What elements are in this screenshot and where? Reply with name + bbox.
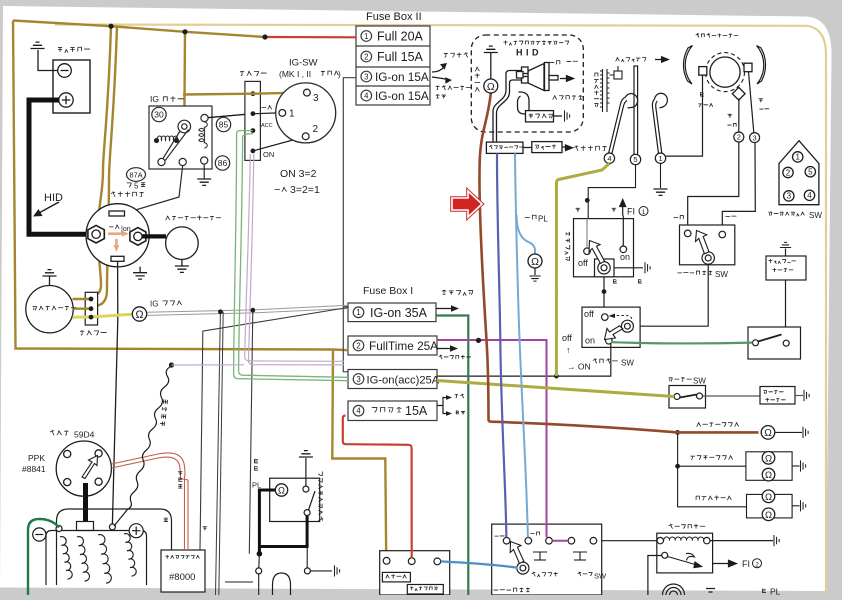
box	[582, 307, 640, 347]
svg-text:Ω: Ω	[764, 428, 772, 439]
arrow horn relay from row2	[437, 348, 451, 350]
FI2 arrow from box	[713, 563, 730, 565]
svg-text:off: off	[584, 309, 594, 319]
ballast to ground wire	[554, 115, 563, 117]
wire tan branch down to IG relay pin30	[183, 32, 186, 125]
svg-text:#8000: #8000	[169, 572, 195, 583]
cell/on orange arrows	[108, 231, 129, 252]
on contact	[620, 246, 627, 253]
svg-text:IG-SW: IG-SW	[289, 58, 318, 69]
coupler junction dots	[251, 91, 256, 153]
svg-text:Ω: Ω	[765, 510, 772, 521]
svg-text:Ω: Ω	[487, 81, 495, 93]
off contact	[602, 314, 609, 321]
straight pin for 5	[634, 66, 638, 155]
svg-text:Ω: Ω	[765, 453, 772, 464]
svg-text:FI: FI	[627, 207, 635, 217]
brown wire small lamp to controller to meter lamp	[479, 93, 758, 432]
right hex nut	[130, 228, 146, 246]
number lamp box	[746, 452, 792, 481]
rotor arrow	[82, 456, 98, 479]
outer rounded enclosure	[57, 509, 172, 585]
red FI1 up arrow	[622, 204, 624, 216]
svg-text:5: 5	[808, 168, 813, 177]
blue wire small box to passing pivot	[441, 561, 518, 567]
circled 30	[152, 107, 166, 121]
block arrow	[696, 231, 710, 254]
svg-text:IG-on 15A: IG-on 15A	[375, 89, 429, 103]
starter circle	[166, 227, 199, 260]
wire pin1 to ground	[660, 163, 662, 188]
coupler box	[245, 81, 261, 160]
wire alternator stub tan2	[73, 308, 91, 310]
left square terminal	[699, 67, 707, 76]
haiPL lamp stem to ground	[534, 268, 536, 275]
small tick symbol near left PL	[706, 589, 715, 593]
pivot rings	[702, 252, 714, 264]
rear small feed	[678, 466, 747, 507]
IG-SW circle	[276, 83, 336, 143]
washer motor box	[766, 256, 806, 280]
wire alternator stub tan1	[73, 298, 92, 300]
wire alternator stub yellow + IG lamp wire	[73, 314, 133, 317]
fuse box I row4 light 15A	[348, 401, 437, 421]
solenoid ground stem	[139, 267, 141, 273]
fuse box I row3 IG-on(acc)25A	[348, 370, 437, 389]
svg-text:FI: FI	[742, 559, 750, 569]
left bulb terminal	[256, 568, 262, 574]
svg-text:Ω: Ω	[135, 309, 143, 321]
svg-text:IG: IG	[150, 300, 158, 309]
svg-text:SW: SW	[621, 359, 634, 368]
svg-text:ACC: ACC	[261, 123, 273, 129]
fuse box I row2 FullTime 25A	[348, 336, 437, 355]
wire tan big page loop: left side down, bottom across	[13, 21, 348, 351]
contact 3	[546, 537, 553, 544]
wire cell line from relay area to coupler (left of box)	[208, 114, 245, 117]
inner rect top	[46, 531, 147, 586]
link to heater motor	[703, 395, 761, 397]
circled 3	[361, 71, 372, 82]
svg-text:30: 30	[154, 110, 164, 120]
wire tan main top horizontal	[13, 21, 265, 38]
contact 5 horn	[590, 537, 597, 544]
right square terminal	[744, 63, 752, 71]
off contact	[584, 248, 591, 255]
pin 3	[304, 89, 311, 96]
wire pin5 down to intermittent kit	[588, 165, 635, 248]
wire red/low: right square down to 3 then to rohai switch	[749, 72, 754, 133]
svg-text:off: off	[562, 333, 572, 343]
svg-text:4: 4	[807, 191, 812, 200]
terminal small circle left	[56, 526, 62, 532]
green wire from row1 kanketsu down	[436, 316, 468, 596]
lower contact	[304, 510, 310, 516]
svg-text:2: 2	[755, 561, 759, 568]
right vertical coil spring	[199, 122, 208, 148]
svg-text:1: 1	[642, 209, 646, 216]
svg-text:(MK I , II: (MK I , II	[279, 69, 311, 79]
small label rect	[382, 572, 410, 582]
svg-text:off: off	[578, 258, 588, 268]
solenoid circle	[86, 204, 149, 267]
wire tan second strand through solenoid to coupler pin2	[91, 27, 117, 309]
hook pin for 4	[609, 94, 638, 154]
windings column1	[60, 537, 72, 579]
junction dots kit	[585, 198, 590, 203]
thick link solenoid to starter	[142, 234, 166, 238]
wire green wiperSW-on to washer switch	[612, 342, 753, 343]
stem to switch	[785, 280, 787, 327]
pin 30 top	[178, 120, 191, 133]
bulb lens bar	[545, 63, 550, 91]
high contact	[684, 230, 691, 237]
arrow to dorareko from fuse II row3	[432, 67, 444, 72]
circled 1	[655, 153, 665, 163]
svg-text:PL: PL	[252, 481, 261, 490]
pivot rings	[517, 562, 529, 574]
box	[380, 551, 450, 595]
red wire row4 to small box	[343, 416, 412, 558]
terminal small circle mid	[109, 524, 115, 530]
number box to ground	[792, 465, 800, 467]
svg-text:SW: SW	[809, 211, 822, 220]
svg-text:4: 4	[607, 154, 611, 163]
right bulb terminal	[304, 568, 310, 574]
circled 3	[750, 133, 760, 143]
dot on lavender	[169, 362, 174, 367]
svg-text:IG-on 35A: IG-on 35A	[370, 306, 428, 320]
thick battery positive cable to solenoid	[29, 100, 87, 234]
svg-text:PL: PL	[770, 587, 781, 596]
wires bulb pins to controller loop	[493, 71, 522, 143]
svg-text:1: 1	[289, 109, 295, 120]
contact circle	[662, 552, 668, 558]
svg-text:1: 1	[356, 308, 360, 317]
heater sw box	[669, 386, 706, 409]
svg-text:Full 15A: Full 15A	[377, 50, 424, 64]
svg-text:5: 5	[134, 182, 139, 191]
junction dots on tan wire	[108, 24, 267, 40]
svg-text:2: 2	[356, 341, 360, 350]
purple link 3-4	[552, 540, 568, 542]
wire from IGlamp dot2 down to warning lamp	[249, 311, 253, 554]
switch arm V	[163, 130, 189, 161]
svg-text:→ ON: → ON	[567, 362, 591, 372]
svg-text:HID: HID	[44, 192, 63, 204]
thick black warn wiring	[259, 490, 307, 554]
number lamp feed	[678, 432, 746, 466]
low contact	[719, 231, 726, 238]
slide arrow	[560, 78, 568, 80]
coil loops	[664, 537, 704, 541]
small lamp ground stem	[490, 53, 492, 80]
bulb pins squares	[522, 67, 529, 74]
svg-text:4: 4	[356, 407, 361, 416]
kit block arrow	[589, 241, 605, 264]
IG lamp white double wire to fuse box I row1	[147, 305, 349, 315]
svg-text:IG-on(acc)25A: IG-on(acc)25A	[367, 375, 440, 387]
horn symbol bottom	[663, 584, 685, 600]
svg-text:Ω: Ω	[278, 485, 285, 495]
T contacts horn	[573, 552, 587, 560]
svg-text:2: 2	[737, 133, 741, 142]
pin 1	[279, 110, 286, 117]
svg-text:2: 2	[364, 52, 368, 61]
svg-text:on: on	[620, 252, 630, 262]
green hook wire coil	[28, 519, 59, 595]
svg-text:Ω: Ω	[531, 256, 539, 268]
ground stem up	[305, 458, 307, 486]
svg-text:): )	[338, 69, 341, 79]
wire red feed to fuse box II	[265, 36, 356, 38]
circled 86	[215, 156, 229, 170]
ballast box	[526, 111, 554, 122]
alternator ground stem	[49, 276, 51, 286]
controller box	[486, 142, 523, 153]
svg-text:HID: HID	[516, 48, 542, 58]
headlight bulb cone	[528, 64, 544, 91]
contact 4	[568, 537, 575, 544]
wire off up (gray inside)	[586, 219, 588, 248]
wire on feed from row3	[437, 344, 611, 376]
svg-text:SW: SW	[594, 572, 607, 581]
top terminal rect	[109, 211, 125, 216]
kit box	[574, 219, 634, 277]
svg-text:1: 1	[658, 154, 662, 163]
svg-text:Ω: Ω	[765, 492, 772, 503]
alternator circle	[26, 286, 73, 333]
svg-text:3: 3	[753, 133, 757, 142]
battery box	[53, 60, 90, 113]
stem to ground	[785, 249, 787, 257]
wire pivot down to wiper SW	[603, 277, 605, 314]
svg-text:Fuse Box II: Fuse Box II	[366, 11, 422, 23]
wire tan coupler to IG-SW pin3	[183, 93, 303, 95]
plus circle	[129, 524, 143, 538]
T contacts passing	[533, 552, 547, 560]
magenta wire fulltime right then down to contact3	[437, 340, 547, 537]
right bracket arc	[757, 46, 766, 85]
circled 5	[630, 154, 640, 164]
coil horizontal with end dots	[157, 136, 178, 141]
wire contact left then down	[648, 556, 662, 596]
block arrow passing	[510, 542, 524, 564]
dashed enclosure	[471, 35, 583, 132]
pivot rings	[598, 262, 610, 274]
contact arm with arrow	[668, 553, 698, 565]
wire coupler ON to pin2	[253, 138, 302, 151]
wire pivot right to ground	[614, 267, 644, 269]
svg-text:1: 1	[364, 32, 368, 41]
light blue branch to haiPL lamp	[517, 215, 536, 254]
svg-text:1: 1	[795, 153, 800, 162]
diamond terminal	[732, 87, 745, 100]
minus circle	[33, 528, 46, 541]
circled 4	[604, 153, 614, 163]
controller-fuse link	[523, 146, 567, 149]
red block arrow marker	[452, 191, 482, 217]
to ground	[795, 395, 803, 397]
svg-text:ON: ON	[263, 150, 274, 159]
indigo wire controller to low contact	[497, 153, 506, 537]
circled 2	[734, 132, 744, 142]
rear small box	[747, 494, 793, 518]
small bulb glass outline	[273, 573, 291, 595]
pin bottom right 86	[201, 157, 208, 164]
alternator coupler box	[85, 292, 97, 325]
gear connector square	[614, 71, 622, 79]
pivot square	[595, 259, 615, 277]
wire pivot down to wiperSW link	[641, 264, 709, 326]
pivot rings	[621, 320, 633, 332]
left hex nut	[88, 225, 104, 243]
block arrow down-left	[605, 326, 623, 340]
circled 85	[216, 117, 230, 131]
wire on up	[622, 216, 624, 247]
headlight label rect	[407, 585, 443, 595]
light blue wire controller to high contact with haiPL branch	[515, 153, 528, 537]
svg-text:SW: SW	[715, 270, 728, 279]
arrow kanketsu kit from row1	[436, 308, 452, 310]
fuse box I row1 IG-on 35A	[348, 303, 436, 322]
fuse box small	[532, 142, 562, 153]
lavender pair from coupler ON down then right	[172, 154, 345, 365]
svg-text:4: 4	[364, 91, 369, 100]
low contact	[503, 537, 510, 544]
pin lower middle	[179, 158, 186, 165]
wire 85 to coupler	[208, 114, 253, 118]
svg-text:on: on	[585, 336, 595, 346]
arm	[309, 491, 316, 510]
wire from IGlamp dot1 down pair	[216, 312, 224, 595]
circled 2	[361, 51, 372, 62]
bottom terminal rect	[111, 256, 124, 261]
svg-text:Ω: Ω	[765, 470, 772, 481]
arrow to tachometer power	[432, 77, 445, 79]
on contact	[606, 337, 613, 344]
svg-text:3: 3	[364, 72, 368, 81]
olive wire row3 to heater SW	[437, 381, 674, 397]
wire yellow/high: diamond down to 2 then to rohai switch	[738, 99, 740, 133]
wire relay lower-middle pin to solenoid top terminal	[125, 166, 183, 214]
gear rack	[600, 69, 610, 112]
pin lower left	[158, 158, 165, 165]
distributor circle	[56, 441, 111, 496]
wire dot down to terminal	[258, 554, 261, 568]
green ACC pair from coupler down then to row3	[0, 0, 1, 1]
svg-text:IG-on 15A: IG-on 15A	[375, 70, 429, 84]
junction dots lamps	[675, 430, 680, 435]
svg-text:3: 3	[356, 375, 360, 384]
heater motor box	[760, 387, 795, 405]
wavy resistance wire	[114, 366, 172, 526]
dashed arrow to off	[612, 316, 632, 321]
svg-text:2: 2	[786, 168, 791, 177]
svg-text:IG: IG	[150, 94, 159, 104]
wire tan branch down to solenoid loop	[91, 26, 111, 299]
right contact	[783, 340, 789, 346]
wire 86 to ground	[203, 164, 205, 179]
svg-text:ON 3=2: ON 3=2	[280, 168, 317, 180]
wire IG-SW feed down to fuse box I (from fuse II row3)	[343, 78, 356, 372]
coupler2 dots	[89, 297, 94, 320]
svg-text:Fuse Box I: Fuse Box I	[363, 285, 413, 297]
upper contact	[303, 486, 309, 492]
svg-text:#8841: #8841	[22, 464, 46, 474]
svg-text:86: 86	[218, 158, 228, 168]
arm	[758, 335, 782, 342]
svg-text:|on: |on	[121, 226, 131, 233]
svg-text:15A: 15A	[405, 404, 428, 418]
circled 4	[361, 90, 372, 101]
wire ballast to bulb loop	[518, 92, 530, 114]
fuse box II outline	[356, 26, 430, 105]
dashed ring	[706, 53, 745, 92]
battery minus terminal	[58, 64, 72, 78]
meter lamp link to ground	[776, 431, 803, 433]
fuse to solenoid arrow	[566, 145, 573, 151]
wire coil right to ground	[710, 540, 773, 542]
box	[492, 524, 602, 595]
left bracket arc	[683, 46, 692, 85]
svg-text:5: 5	[633, 155, 637, 164]
svg-text:PL: PL	[538, 215, 548, 224]
IG relay box	[149, 106, 212, 169]
wiper motor circle	[710, 57, 740, 87]
push pin arrow	[655, 59, 662, 61]
coil tower rect	[77, 522, 94, 531]
svg-text:59D4: 59D4	[74, 430, 95, 440]
starter ground stem	[181, 260, 183, 267]
svg-text:3: 3	[787, 192, 792, 201]
hook pin for 1	[652, 93, 667, 153]
box	[680, 225, 735, 265]
wire warn feed: row1 left diagonal down to x202 vertical ultra amp	[200, 308, 348, 551]
svg-text:3=2=1: 3=2=1	[290, 184, 320, 196]
row dividers	[356, 46, 430, 86]
left contact	[753, 340, 759, 346]
svg-text:Full 20A: Full 20A	[377, 30, 424, 44]
svg-text:↑: ↑	[566, 345, 571, 355]
wire coil left to SW	[597, 540, 657, 542]
svg-text:87A: 87A	[129, 171, 142, 180]
circled 1	[361, 31, 372, 42]
circled 87A	[127, 168, 146, 182]
svg-text:PPK: PPK	[28, 453, 45, 463]
svg-text:SW: SW	[693, 377, 706, 386]
pin 2	[302, 133, 309, 140]
rear box to ground	[792, 505, 800, 507]
red double wire distributor to ultra amp	[112, 453, 189, 550]
washer switch box	[748, 327, 801, 359]
svg-text:FullTime 25A: FullTime 25A	[369, 339, 438, 353]
svg-text:2: 2	[313, 124, 319, 135]
wire tan branch down from (333,349) to small box	[332, 350, 386, 558]
wire coupler cell to pin1	[253, 112, 279, 115]
HID label arrow	[38, 202, 59, 214]
horn relay box	[657, 533, 713, 573]
dot olive joins	[554, 374, 559, 379]
battery plus terminal	[59, 93, 73, 107]
wire battery minus to ground	[38, 50, 58, 71]
distributor stem thick	[83, 483, 88, 522]
bottom rail stubs	[225, 581, 253, 583]
test sw box	[270, 478, 320, 521]
wire blue/earth: left square down then left to pin1circle	[666, 75, 703, 156]
olive wire pushpin4 down	[556, 163, 609, 376]
svg-text:85: 85	[219, 120, 229, 130]
